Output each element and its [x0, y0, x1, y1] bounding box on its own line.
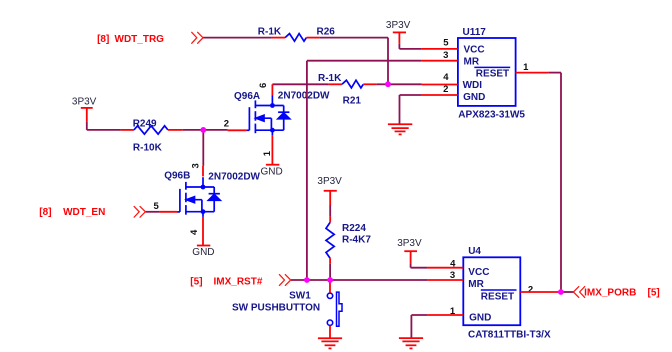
svg-text:[8]: [8]	[97, 34, 109, 45]
svg-text:SW PUSHBUTTON: SW PUSHBUTTON	[232, 302, 320, 313]
svg-text:GND: GND	[463, 92, 485, 103]
svg-text:CAT811TTBI-T3/X: CAT811TTBI-T3/X	[468, 329, 551, 340]
svg-text:3: 3	[190, 163, 201, 168]
svg-text:3: 3	[443, 50, 448, 61]
svg-text:Q96A: Q96A	[234, 91, 260, 102]
svg-text:R21: R21	[343, 96, 362, 107]
svg-text:APX823-31W5: APX823-31W5	[458, 109, 525, 120]
svg-text:4: 4	[443, 72, 449, 83]
svg-text:R224: R224	[342, 223, 366, 234]
svg-text:6: 6	[258, 83, 269, 88]
svg-text:5: 5	[443, 38, 449, 49]
svg-text:SW1: SW1	[289, 291, 311, 302]
svg-text:RESET: RESET	[481, 291, 514, 302]
svg-text:VCC: VCC	[468, 267, 489, 278]
svg-text:3P3V: 3P3V	[317, 176, 342, 187]
svg-text:[8]: [8]	[39, 207, 51, 218]
svg-text:R-1K: R-1K	[318, 73, 342, 84]
svg-text:RESET: RESET	[476, 68, 509, 79]
svg-text:2: 2	[224, 119, 229, 130]
svg-text:Q96B: Q96B	[164, 171, 190, 182]
svg-text:GND: GND	[261, 166, 283, 177]
svg-text:3P3V: 3P3V	[72, 96, 97, 107]
svg-text:2: 2	[528, 284, 533, 295]
svg-text:3P3V: 3P3V	[386, 20, 411, 31]
svg-text:[5]: [5]	[648, 287, 660, 298]
svg-text:MR: MR	[468, 279, 484, 290]
svg-text:1: 1	[262, 150, 273, 156]
svg-text:WDI: WDI	[463, 80, 483, 91]
svg-text:1: 1	[523, 62, 529, 73]
svg-text:R-1K: R-1K	[258, 27, 282, 38]
svg-text:VCC: VCC	[464, 45, 485, 56]
svg-text:R-10K: R-10K	[133, 142, 163, 153]
svg-text:4: 4	[189, 229, 200, 235]
svg-text:R249: R249	[133, 119, 157, 130]
svg-text:GND: GND	[192, 247, 214, 258]
svg-text:GND: GND	[469, 313, 491, 324]
svg-text:IMX_PORB: IMX_PORB	[584, 287, 636, 298]
svg-text:IMX_RST#: IMX_RST#	[214, 276, 263, 287]
svg-text:WDT_TRG: WDT_TRG	[115, 34, 165, 45]
svg-text:[5]: [5]	[190, 276, 202, 287]
svg-text:2N7002DW: 2N7002DW	[208, 172, 260, 183]
svg-text:WDT_EN: WDT_EN	[63, 207, 105, 218]
svg-text:5: 5	[154, 201, 160, 212]
svg-text:2: 2	[443, 84, 448, 95]
svg-text:3P3V: 3P3V	[397, 238, 422, 249]
svg-text:U4: U4	[468, 246, 481, 257]
svg-text:MR: MR	[464, 56, 480, 67]
svg-text:2N7002DW: 2N7002DW	[278, 91, 330, 102]
svg-text:R-4K7: R-4K7	[342, 235, 371, 246]
svg-text:U117: U117	[463, 27, 487, 38]
svg-text:R26: R26	[317, 27, 336, 38]
